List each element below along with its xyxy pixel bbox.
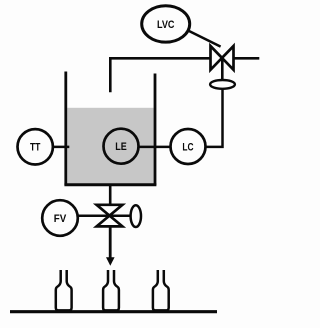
tank T1 left wall — [64, 72, 67, 186]
bottle 1 — [56, 270, 72, 310]
drain valve V2 (vertical hourglass bowtie) — [97, 205, 123, 227]
bottle 2 — [103, 270, 119, 310]
wire FV through drain valve to paddle — [77, 215, 131, 218]
svg-text:LE: LE — [115, 141, 127, 153]
pipe: tank outlet down to drain valve — [109, 185, 112, 206]
pipe: feed line down into tank — [110, 58, 210, 92]
svg-text:LVC: LVC — [157, 19, 175, 31]
instrument bubble LVC — [142, 6, 190, 42]
svg-text:FV: FV — [54, 213, 67, 225]
signal line LVC to valve — [186, 30, 221, 47]
tank T1 bottom — [64, 183, 156, 186]
instrument bubble LE — [104, 129, 139, 164]
actuator flange ellipse under valve V1 — [210, 80, 235, 89]
pipe: valve outlet to the right — [234, 57, 260, 60]
tank T1 liquid fill — [67, 108, 153, 184]
instrument bubble TT — [18, 129, 53, 164]
instrument bubble FV — [42, 200, 78, 236]
wire TT to tank wall — [53, 146, 70, 149]
conveyor / ground line — [10, 310, 217, 313]
arrowhead on filler pipe — [106, 257, 115, 266]
bottle 3 — [153, 270, 169, 310]
svg-text:LC: LC — [182, 141, 193, 153]
paddle / sight-glass ellipse right of drain valve — [131, 205, 141, 227]
svg-text:TT: TT — [30, 142, 41, 154]
instrument bubble LC — [171, 129, 206, 164]
control valve V1 (top bowtie) — [211, 46, 234, 70]
tank T1 right wall — [154, 74, 157, 186]
valve V1 stem — [221, 58, 224, 81]
pipe: drain valve to filler arrow — [109, 226, 112, 259]
signal line: flange down then left to LC — [206, 89, 223, 147]
wire LE to LC — [139, 146, 171, 149]
